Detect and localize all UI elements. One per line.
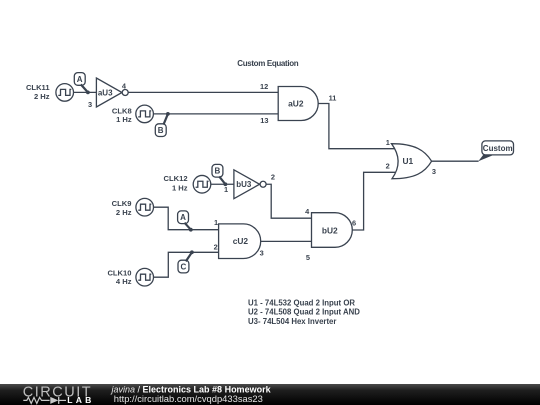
svg-text:bU2: bU2 bbox=[322, 226, 338, 236]
wire cU2 output to bU2 pin 5 bbox=[261, 240, 312, 242]
svg-text:aU3: aU3 bbox=[98, 88, 113, 97]
svg-text:LAB: LAB bbox=[67, 395, 94, 405]
svg-text:1 Hz: 1 Hz bbox=[116, 115, 132, 124]
svg-text:1 Hz: 1 Hz bbox=[172, 183, 188, 192]
clock source CLK9 bbox=[112, 198, 154, 217]
svg-text:CLK9: CLK9 bbox=[112, 199, 132, 208]
svg-text:2: 2 bbox=[271, 173, 275, 182]
clock source CLK11 bbox=[26, 83, 74, 101]
node flag A (on CLK11 wire) bbox=[74, 73, 88, 93]
wire aU3 output to aU2 pin 12 bbox=[128, 91, 278, 93]
wire bU2 output to U1 pin 2 bbox=[352, 172, 396, 230]
wire CLK8 to aU2 pin 13 bbox=[153, 113, 278, 115]
svg-text:12: 12 bbox=[260, 82, 268, 91]
net flag Custom bbox=[478, 141, 513, 161]
svg-text:2 Hz: 2 Hz bbox=[34, 92, 50, 101]
svg-text:6: 6 bbox=[352, 218, 356, 227]
svg-text:C: C bbox=[181, 262, 187, 271]
svg-text:Custom Equation: Custom Equation bbox=[237, 59, 298, 68]
svg-text:3: 3 bbox=[432, 167, 436, 176]
footer bar bbox=[0, 384, 540, 405]
clock source CLK12 bbox=[164, 174, 211, 193]
svg-text:1: 1 bbox=[386, 138, 390, 147]
parts list note bbox=[248, 299, 360, 326]
svg-text:4 Hz: 4 Hz bbox=[116, 277, 132, 286]
svg-text:aU2: aU2 bbox=[288, 99, 304, 109]
svg-text:Custom: Custom bbox=[483, 144, 513, 153]
AND gate bU2 bbox=[312, 213, 353, 248]
wire CLK9 to cU2 pin 1 bbox=[154, 207, 219, 230]
svg-text:B: B bbox=[215, 167, 221, 176]
svg-text:U3- 74L504 Hex Inverter: U3- 74L504 Hex Inverter bbox=[248, 317, 336, 326]
node flag B (on CLK12 wire) bbox=[212, 164, 225, 184]
svg-text:3: 3 bbox=[88, 100, 92, 109]
svg-text:3: 3 bbox=[260, 249, 264, 258]
node flag C (on cU2 pin2 wire) bbox=[178, 252, 192, 273]
wire bU3 output to bU2 pin 4 bbox=[266, 184, 311, 218]
OR gate U1 bbox=[392, 144, 432, 179]
svg-text:http://circuitlab.com/cvqdp433: http://circuitlab.com/cvqdp433sas23 bbox=[114, 393, 263, 404]
svg-text:2 Hz: 2 Hz bbox=[116, 208, 132, 217]
junction on cU2 pin1 wire bbox=[189, 228, 193, 232]
junction on CLK8 wire bbox=[166, 112, 170, 116]
svg-text:5: 5 bbox=[306, 253, 310, 262]
AND gate cU2 bbox=[219, 224, 261, 259]
wire CLK12 to bU3 input bbox=[211, 183, 234, 185]
svg-text:cU2: cU2 bbox=[233, 236, 249, 246]
junction on CLK11 wire bbox=[86, 91, 90, 95]
svg-text:CLK12: CLK12 bbox=[164, 174, 188, 183]
svg-text:A: A bbox=[77, 75, 83, 84]
svg-text:11: 11 bbox=[329, 94, 337, 103]
inverter aU3 bbox=[96, 78, 128, 107]
svg-text:U1: U1 bbox=[402, 156, 413, 166]
svg-text:A: A bbox=[180, 213, 186, 222]
svg-text:1: 1 bbox=[214, 218, 218, 227]
clock source CLK10 bbox=[107, 268, 153, 286]
svg-text:U2 - 74L508 Quad 2 Input AND: U2 - 74L508 Quad 2 Input AND bbox=[248, 308, 360, 317]
wire CLK10 to cU2 pin 2 bbox=[154, 252, 219, 277]
wire CLK11 to aU3 input bbox=[74, 91, 97, 93]
wire aU2 output to U1 pin 1 bbox=[318, 104, 396, 149]
svg-text:CLK11: CLK11 bbox=[26, 83, 50, 92]
svg-text:2: 2 bbox=[214, 242, 218, 251]
inverter bU3 bbox=[234, 170, 266, 199]
junction on cU2 pin2 wire bbox=[190, 250, 194, 254]
node flag A (on cU2 pin1 wire) bbox=[178, 211, 191, 230]
svg-text:B: B bbox=[158, 126, 164, 135]
svg-text:13: 13 bbox=[260, 116, 268, 125]
wire U1 output to Custom flag bbox=[432, 160, 479, 162]
AND gate aU2 bbox=[278, 87, 318, 121]
node flag B (on CLK8 wire) bbox=[155, 114, 168, 137]
svg-text:2: 2 bbox=[386, 161, 390, 170]
svg-text:1: 1 bbox=[224, 185, 228, 194]
svg-text:U1 - 74L532 Quad 2 Input OR: U1 - 74L532 Quad 2 Input OR bbox=[248, 299, 355, 308]
svg-text:bU3: bU3 bbox=[236, 180, 252, 189]
junction on CLK12 wire bbox=[224, 182, 228, 186]
clock source CLK8 bbox=[112, 105, 154, 124]
CircuitLab logo bbox=[23, 384, 95, 404]
